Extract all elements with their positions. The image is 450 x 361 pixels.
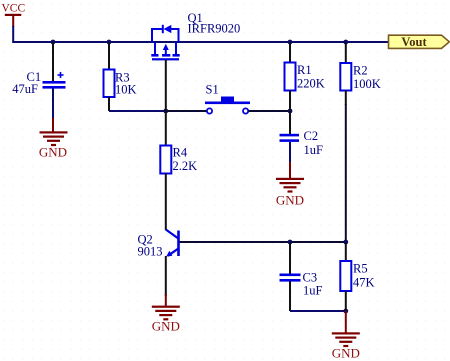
resistor R1 bbox=[285, 42, 325, 111]
wire C3 bottom to R5 bottom bbox=[290, 310, 346, 312]
wire R1 node down to C2 bbox=[289, 111, 291, 134]
resistor R5 bbox=[340, 242, 374, 311]
svg-text:47K: 47K bbox=[353, 276, 375, 290]
wire R2 bottom long run to base node bbox=[345, 104, 347, 242]
svg-text:IRFR9020: IRFR9020 bbox=[188, 22, 241, 36]
switch S1 bbox=[205, 83, 250, 114]
transistor Q2 npn bbox=[138, 230, 179, 259]
svg-text:2.2K: 2.2K bbox=[173, 159, 198, 173]
svg-text:S1: S1 bbox=[206, 83, 219, 97]
ground GND under C2 bbox=[276, 162, 304, 208]
wire S1 right to R1 bottom node bbox=[249, 110, 291, 112]
capacitor C2 bbox=[280, 129, 324, 165]
port Vout bbox=[389, 35, 450, 49]
svg-text:C2: C2 bbox=[304, 129, 319, 143]
node R5 bottom junction bbox=[343, 309, 348, 314]
svg-text:1uF: 1uF bbox=[304, 143, 324, 157]
node R1 top junction bbox=[288, 40, 293, 45]
svg-text:GND: GND bbox=[332, 345, 360, 360]
svg-text:VCC: VCC bbox=[2, 3, 26, 15]
svg-text:C3: C3 bbox=[303, 271, 318, 285]
ground GND under R5 bbox=[332, 311, 360, 360]
node S1 right junction bbox=[288, 109, 293, 114]
svg-text:10K: 10K bbox=[115, 83, 137, 97]
resistor R3 bbox=[104, 42, 137, 111]
ground GND under Q2 bbox=[152, 294, 180, 334]
svg-text:R1: R1 bbox=[297, 63, 312, 77]
capacitor C1 bbox=[12, 42, 65, 121]
svg-text:R5: R5 bbox=[353, 262, 368, 276]
svg-text:Vout: Vout bbox=[401, 35, 427, 49]
node C1 top junction bbox=[51, 40, 56, 45]
wire VCC stem to rail bbox=[12, 26, 14, 42]
svg-text:GND: GND bbox=[152, 319, 180, 334]
node gate junction bbox=[163, 109, 168, 114]
wire R3 bottom to gate node bbox=[109, 110, 166, 112]
node R5 top junction bbox=[343, 240, 348, 245]
svg-text:9013: 9013 bbox=[138, 245, 163, 259]
svg-text:1uF: 1uF bbox=[303, 284, 323, 298]
transistor Q1 p-mosfet bbox=[151, 11, 240, 60]
wire Q2 base to right node bbox=[180, 241, 346, 243]
wire gate node to S1 left bbox=[166, 110, 207, 112]
svg-text:GND: GND bbox=[39, 145, 67, 160]
node C3 top junction bbox=[288, 240, 293, 245]
wire Q2 emitter down bbox=[165, 256, 167, 296]
wire main VCC rail bbox=[12, 41, 388, 43]
svg-text:R2: R2 bbox=[353, 64, 368, 78]
svg-text:100K: 100K bbox=[353, 77, 381, 91]
node R2 top junction bbox=[343, 40, 348, 45]
capacitor C3 bbox=[280, 242, 323, 311]
wire Q1 gate lead down to node bbox=[165, 60, 167, 111]
resistor R2 bbox=[340, 42, 380, 105]
power symbol VCC bbox=[2, 3, 26, 28]
svg-text:220K: 220K bbox=[297, 77, 325, 91]
svg-text:GND: GND bbox=[276, 193, 304, 208]
resistor R4 bbox=[160, 111, 197, 230]
svg-text:47uF: 47uF bbox=[12, 82, 38, 96]
ground GND under C1 bbox=[39, 118, 68, 160]
node R3 top junction bbox=[107, 40, 112, 45]
svg-text:R4: R4 bbox=[173, 146, 188, 160]
